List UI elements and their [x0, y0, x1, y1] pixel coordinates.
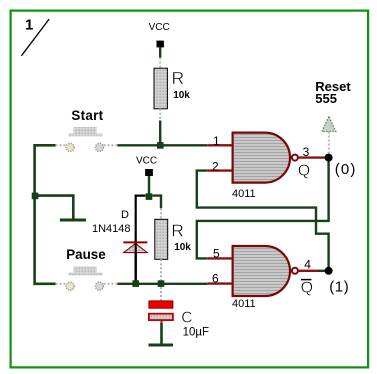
junction VCC2 node — [146, 193, 153, 200]
svg-text:4011: 4011 — [232, 298, 256, 310]
wire pin4 to node1 — [318, 270, 329, 272]
switch Pause actuator cap — [74, 266, 97, 273]
svg-text:6: 6 — [212, 272, 219, 286]
Pause contact right — [95, 282, 103, 290]
svg-text:Start: Start — [71, 108, 103, 123]
wire start row to gate pin 1 — [118, 144, 208, 146]
svg-text:10k: 10k — [174, 242, 191, 253]
svg-text:1: 1 — [213, 134, 220, 148]
lead R2 top (dashed) — [160, 208, 162, 219]
lead Pause right contact (dashed) — [104, 283, 118, 285]
U2 pin 5 lead — [207, 257, 232, 259]
diode D triangle — [124, 243, 148, 252]
switch Pause base plate — [68, 273, 102, 276]
wire R1 to start row — [159, 121, 161, 147]
svg-text:Pause: Pause — [66, 247, 105, 262]
svg-text:5: 5 — [213, 246, 220, 260]
lead R1 bottom (dashed) — [159, 109, 161, 121]
lead C bottom (red stub) — [161, 320, 163, 323]
Q-bar overline — [301, 279, 312, 281]
wire VCC2 node to R2 column — [152, 196, 161, 209]
svg-text:VCC: VCC — [149, 22, 170, 33]
junction pause row / diode — [132, 280, 139, 287]
wire node1 to gate1 pin2 — [197, 171, 329, 271]
svg-text:1N4148: 1N4148 — [92, 223, 131, 235]
svg-text:R: R — [172, 68, 185, 88]
svg-text:10µF: 10µF — [183, 327, 209, 339]
lead R1 top (dashed) — [159, 58, 161, 69]
resistor R1 — [154, 68, 167, 109]
capacitor C plate bottom — [149, 314, 173, 320]
junction left rail / ground branch — [32, 193, 39, 200]
title diagonal line — [21, 19, 49, 56]
wire pause row to gate pin 6 — [118, 283, 208, 285]
VCC terminal square (middle) — [145, 169, 153, 176]
nand gate U1 body — [233, 133, 290, 183]
lead C top (dashed) — [160, 287, 162, 301]
reset arrow head — [322, 117, 336, 132]
svg-text:555: 555 — [315, 91, 337, 106]
svg-text:10k: 10k — [173, 90, 190, 101]
lead diode D (black) — [136, 196, 146, 284]
U2 pin 6 lead — [207, 282, 232, 284]
VCC terminal square (top) — [157, 41, 164, 48]
ground (bottom) — [149, 344, 174, 347]
diode D cathode bar — [123, 241, 147, 243]
U2 output bubble — [292, 268, 298, 274]
svg-text:4: 4 — [304, 257, 311, 271]
lead Pause left contact (dashed) — [56, 283, 67, 285]
svg-text:2: 2 — [212, 159, 219, 173]
svg-text:C: C — [181, 309, 192, 326]
reset arrow stem (dashed) — [328, 132, 330, 154]
wire VCC2 to junction — [148, 176, 150, 194]
lead Start left contact (dashed) — [56, 144, 67, 146]
wire C to ground — [160, 323, 163, 345]
svg-text:(1): (1) — [329, 278, 349, 295]
wire left rail (start row to pause row) — [35, 145, 56, 283]
diode D lead through symbol — [135, 243, 137, 283]
svg-text:4011: 4011 — [232, 188, 256, 200]
node 0 dot — [325, 154, 333, 162]
junction pause row / R2 C — [158, 280, 165, 287]
U1 pin 1 lead — [207, 144, 232, 146]
svg-text:Q: Q — [298, 163, 310, 180]
svg-text:3: 3 — [303, 145, 310, 159]
wire node0 to gate2 pin5 — [197, 158, 329, 259]
svg-text:D: D — [121, 209, 129, 221]
ground (left) — [60, 219, 86, 222]
U1 output bubble — [292, 155, 298, 161]
U1 pin 3 lead — [298, 156, 325, 158]
junction start row / R1 — [157, 142, 164, 149]
svg-text:VCC: VCC — [136, 155, 157, 166]
node 1 dot — [325, 267, 333, 275]
lead R2 bottom (dashed) — [160, 259, 162, 281]
U2 pin 4 lead — [298, 270, 318, 272]
svg-text:(0): (0) — [335, 161, 357, 178]
svg-text:1: 1 — [25, 17, 33, 34]
svg-text:R: R — [171, 220, 184, 240]
U1 pin 2 lead — [207, 169, 232, 171]
wire VCC to R1 — [159, 47, 161, 57]
switch Start base plate — [68, 134, 102, 137]
svg-text:Q: Q — [301, 280, 313, 297]
lead Start right contact (dashed) — [104, 144, 118, 146]
nand gate U2 body — [233, 246, 290, 296]
switch Start actuator cap — [74, 127, 97, 134]
resistor R2 — [155, 219, 168, 259]
wire ground branch — [35, 196, 74, 219]
Start contact right — [95, 143, 103, 151]
Pause contact left — [66, 282, 74, 290]
Start contact left — [66, 143, 74, 151]
capacitor C plate top — [149, 301, 173, 308]
